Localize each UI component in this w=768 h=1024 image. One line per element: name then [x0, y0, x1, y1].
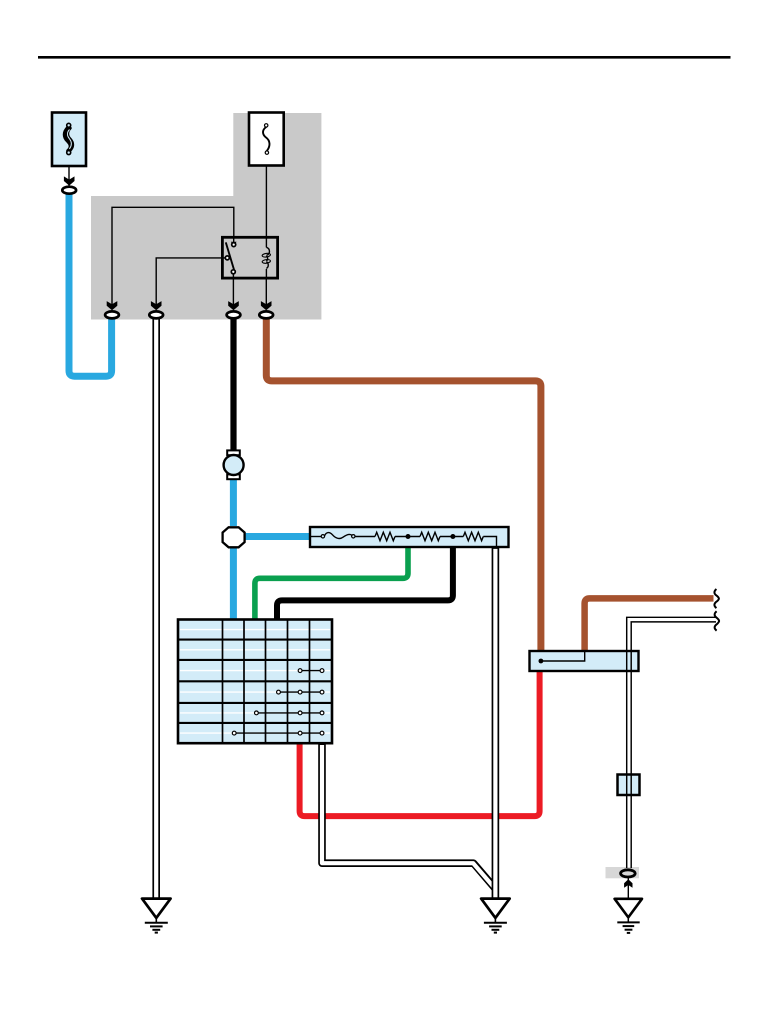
connector arrow 0 [64, 176, 75, 185]
connector arrow 3 [228, 301, 239, 310]
wire: relay coil to oval 4 [265, 278, 267, 308]
connector arrow right ground (pointing up) [624, 879, 632, 888]
wire: blue noise filter to octagon junction [230, 478, 237, 526]
resistor pack internals [311, 532, 497, 547]
resistor pack box [310, 527, 509, 547]
wire: relay pin 1 routing to oval 1 [112, 207, 234, 308]
relay switch [222, 237, 236, 273]
junction block internal links [234, 671, 322, 734]
connector oval 1 [105, 311, 119, 318]
junction dot black tap [450, 534, 455, 539]
relay U1 box [222, 237, 277, 278]
wire: fuse to relay coil [265, 155, 267, 238]
ground lead right [627, 878, 629, 898]
fusible link symbol [65, 123, 73, 154]
connector arrow 2 [151, 301, 162, 310]
connector arrow 4 [261, 301, 272, 310]
wire: blue feed loop from fusible link [69, 194, 112, 377]
break symbol on white pair [715, 611, 719, 631]
wire: black from relay to noise filter [230, 318, 236, 451]
wire: black resistor tap to junction block [277, 538, 453, 621]
ground symbol middle [481, 899, 510, 933]
junction block grid [178, 620, 332, 744]
wire: brown output to right [585, 598, 714, 652]
break symbol on brown wire [714, 589, 718, 608]
noise filter capacitor C1 [224, 450, 244, 479]
inline connector square [618, 775, 640, 796]
ground symbol right [615, 899, 642, 933]
connector oval 4 [259, 311, 273, 318]
fuse symbol [263, 124, 269, 155]
wire: relay switch output to oval 3 [232, 274, 234, 308]
connector oval below fusible link [62, 187, 76, 194]
relay coil [262, 237, 271, 278]
wire: thin lead from fusible link to connector [68, 166, 70, 187]
ground symbol left [142, 899, 171, 933]
junction connector dot [539, 659, 544, 664]
relay block shaded region [91, 113, 321, 320]
junction connector box (right) [530, 651, 639, 671]
connector oval 3 [227, 311, 241, 318]
wire: white from resistor pack to middle ground [492, 548, 500, 900]
top rule [38, 56, 731, 59]
wire: green resistor tap to junction block [255, 538, 408, 621]
wire: white from relay oval 2 to left ground [152, 318, 160, 899]
junction connector internal link [541, 652, 585, 661]
fusible link box (left, light blue) [52, 113, 86, 167]
wire: brown from relay to junction connector [266, 318, 541, 652]
connector arrow 1 [107, 301, 118, 310]
junction dot green tap [406, 534, 411, 539]
wire: white shielded pair right branch [627, 617, 716, 868]
wire: relay switch common to oval 2 [156, 258, 222, 308]
gray band behind right ground connector [606, 867, 640, 878]
wire: red from junction block to junction connector [300, 670, 540, 816]
wire: blue octagon to junction block [230, 548, 237, 622]
connector oval 2 [149, 311, 163, 318]
fuse box (top right, white) [249, 113, 284, 166]
resistor lead circles [321, 535, 324, 538]
wire: blue octagon to resistor pack [245, 533, 312, 540]
wire: white from junction block joining middle ground [322, 744, 496, 890]
octagon junction node [223, 527, 245, 547]
connector oval right ground [621, 870, 636, 877]
